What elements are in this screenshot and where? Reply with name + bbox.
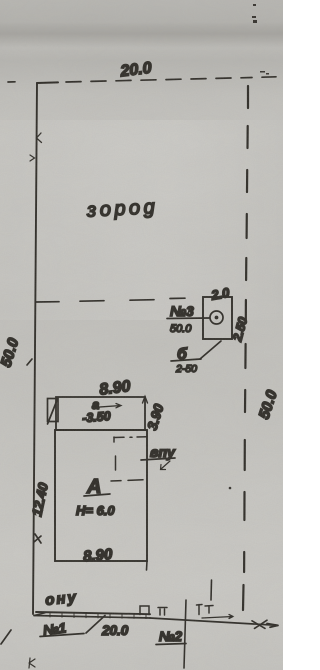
scan shading band top [0,22,283,48]
tick mark k on left line [37,133,42,143]
arrow up at annex top-right (3.90 dim) [143,397,148,404]
offset segment with arrow right of divider [202,615,233,619]
label впу with underline and arrow [141,444,176,470]
outbuilding Б: small square [203,297,232,339]
gate symbol 3 right of divider [197,605,214,615]
label No3 over 50.0 with leader [167,303,209,335]
stray mark k bottom-left [29,658,35,668]
paper grain [0,0,1,1]
left boundary solid line, 50.0 side [33,83,37,614]
paper mottle [0,0,1,1]
gate symbol 1 on street line [140,606,149,615]
label No1 with underline and leader [40,616,105,639]
top boundary dashed line, 20.0 side [8,77,276,83]
right arrow cross [252,620,267,628]
left junction stroke [34,613,45,616]
street line with arrow [34,613,278,629]
main building A rectangle [55,430,147,561]
tick mark > on left line [30,155,35,161]
right boundary dashed line, 50.0 side [243,86,248,610]
short vertical tick above street right part [210,580,213,600]
well circle inside square [210,311,223,324]
annex a: top rectangle of building [56,397,145,430]
tick mark x at y538 [34,534,41,543]
dashed line to structure No3, y300 [36,298,185,302]
label б over 2-50 with leader to square [171,341,221,375]
interior dashed partition (top-right of building) [111,437,147,481]
porch: small hatched rect left of annex [48,399,59,425]
scan lighter middle [0,120,283,320]
gate symbol 2 (double tick with bar) [158,608,167,616]
stray pen stroke bottom-left [1,630,11,644]
fence double line with posts [36,612,150,614]
label No2 with underline [156,629,186,645]
plot divider vertical line [184,600,186,668]
specks top-right [229,4,269,489]
tick mark diagonal at y360 [27,359,32,365]
building right edge tick below bottom [146,561,149,570]
